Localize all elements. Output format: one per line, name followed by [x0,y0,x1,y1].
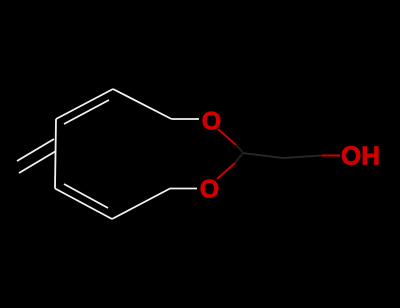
ring bond T-TL [56,89,113,119]
dark chain [243,153,323,158]
ring bond A-T [113,89,172,119]
red diagonal bottom O to acetal C [217,163,235,179]
ring bond TL-BL [55,119,56,189]
aromatic inner line bottom-left [64,184,108,208]
red bond into OH [322,155,340,157]
ring bond Bo-B [112,189,170,220]
svg-text:O: O [200,176,219,204]
aromatic inner line top-left [64,100,109,124]
ring bond BL-Bo [55,189,112,220]
svg-text:OH: OH [341,141,380,171]
double bond stub far left [17,139,54,161]
bond A to top O [172,118,200,120]
svg-text:O: O [202,108,221,136]
bond B to bottom O [170,188,197,190]
red diagonal top O to acetal C [218,129,236,145]
